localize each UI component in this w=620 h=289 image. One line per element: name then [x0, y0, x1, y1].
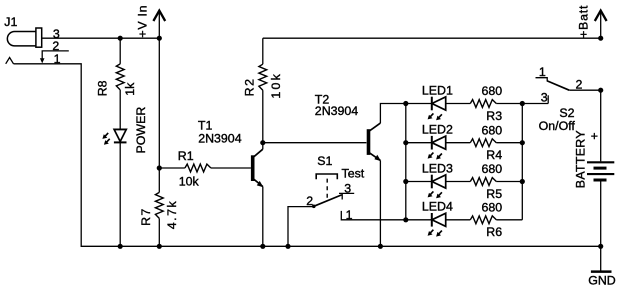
svg-text:R5: R5	[486, 187, 502, 201]
power symbol +V In arrow	[153, 11, 165, 39]
battery BATTERY	[587, 90, 614, 246]
svg-text:1: 1	[346, 208, 353, 222]
resistor R3 680	[470, 100, 548, 108]
wire J1 pin3 to +V In node	[42, 37, 160, 39]
svg-text:S2: S2	[559, 106, 574, 120]
svg-text:+: +	[591, 129, 598, 143]
svg-text:2: 2	[576, 78, 583, 92]
svg-text:1k: 1k	[123, 82, 137, 96]
svg-text:S1: S1	[317, 154, 332, 168]
svg-text:4.7k: 4.7k	[165, 200, 179, 229]
node rail dot S1 leg	[285, 244, 290, 249]
node +V In junction dot	[157, 36, 162, 41]
wire T1 collector to T2 base	[263, 142, 367, 144]
resistor R6 680	[470, 216, 522, 224]
wire J1 pin1 + left vertical + ground rail	[14, 64, 601, 247]
svg-text:2: 2	[306, 194, 313, 208]
ground GND	[591, 246, 612, 271]
node T1 collector / R2 junction dot	[260, 140, 265, 145]
svg-text:LED1: LED1	[422, 83, 453, 97]
transistor T2 2N3904	[369, 104, 406, 247]
node right bus dot row2	[520, 140, 525, 145]
svg-text:2N3904: 2N3904	[198, 132, 242, 146]
svg-text:680: 680	[482, 162, 503, 176]
node right bus dot row3	[520, 179, 525, 184]
LED POWER (pointing down)	[102, 129, 126, 246]
switch S2 On/Off	[536, 78, 601, 104]
svg-text:3: 3	[541, 91, 548, 105]
resistor R2 10k	[259, 38, 267, 143]
svg-text:1: 1	[539, 65, 546, 79]
svg-text:680: 680	[482, 123, 503, 137]
LED LED3	[406, 175, 471, 199]
resistor R1 10k	[159, 164, 251, 172]
transistor T1 2N3904	[253, 143, 264, 247]
svg-text:R6: R6	[486, 225, 502, 239]
svg-text:J1: J1	[4, 15, 17, 29]
LED LED2	[406, 136, 471, 160]
node LED bus junction dot row 4	[403, 217, 408, 222]
node LED bus junction dot row 1	[403, 101, 408, 106]
resistor R4 680	[470, 139, 522, 147]
svg-text:Test: Test	[342, 166, 365, 180]
node +Batt junction dot	[598, 36, 603, 41]
node rail dot R8/LED leg	[118, 244, 123, 249]
node rail dot R7 leg	[157, 244, 162, 249]
svg-text:+V In: +V In	[135, 5, 149, 38]
resistor R5 680	[470, 178, 522, 186]
svg-text:2N3904: 2N3904	[315, 104, 359, 118]
wire top rail R2 to +Batt	[263, 37, 601, 39]
svg-text:LED3: LED3	[422, 161, 453, 175]
node rail dot T1 emitter	[260, 244, 265, 249]
svg-text:680: 680	[482, 201, 503, 215]
node LED bus junction dot row 2	[403, 140, 408, 145]
svg-text:LED2: LED2	[422, 123, 453, 137]
svg-text:POWER: POWER	[134, 107, 148, 154]
J1 switch contact pin 2 stub with arrow	[42, 51, 69, 59]
node rail dot T2 emitter	[378, 244, 383, 249]
svg-text:R4: R4	[486, 148, 502, 162]
svg-text:LED4: LED4	[422, 200, 453, 214]
svg-text:On/Off: On/Off	[539, 119, 576, 133]
resistor R8 1k	[116, 38, 124, 129]
svg-text:R2: R2	[243, 77, 257, 96]
svg-text:R1: R1	[178, 149, 194, 163]
node S2 pin2 junction dot	[598, 88, 603, 93]
resistor right bus	[521, 104, 523, 220]
LED LED4	[406, 213, 471, 237]
svg-text:R7: R7	[139, 207, 153, 225]
node right bus top dot	[520, 101, 525, 106]
svg-text:GND: GND	[588, 273, 616, 287]
svg-text:T1: T1	[198, 118, 213, 132]
svg-text:10k: 10k	[269, 72, 283, 99]
svg-text:BATTERY: BATTERY	[574, 130, 588, 188]
resistor R7 4.7k	[155, 38, 163, 246]
svg-text:10k: 10k	[179, 174, 200, 188]
LED cathode bus	[405, 104, 407, 220]
node LED bus junction dot row 3	[403, 179, 408, 184]
power symbol +Batt arrow	[595, 11, 607, 39]
LED LED1	[406, 97, 471, 121]
svg-text:R8: R8	[96, 80, 110, 96]
node battery/GND rail dot	[598, 244, 603, 249]
svg-text:R3: R3	[486, 109, 502, 123]
svg-text:3: 3	[344, 182, 351, 196]
svg-text:+Batt: +Batt	[577, 5, 591, 38]
connector J1	[7, 28, 41, 47]
node R8 top junction dot	[118, 36, 123, 41]
svg-text:680: 680	[482, 84, 503, 98]
switch S1 Test (pushbutton)	[288, 174, 406, 246]
J1 sleeve caret	[6, 58, 14, 64]
node R1/R7 junction dot	[157, 165, 162, 170]
